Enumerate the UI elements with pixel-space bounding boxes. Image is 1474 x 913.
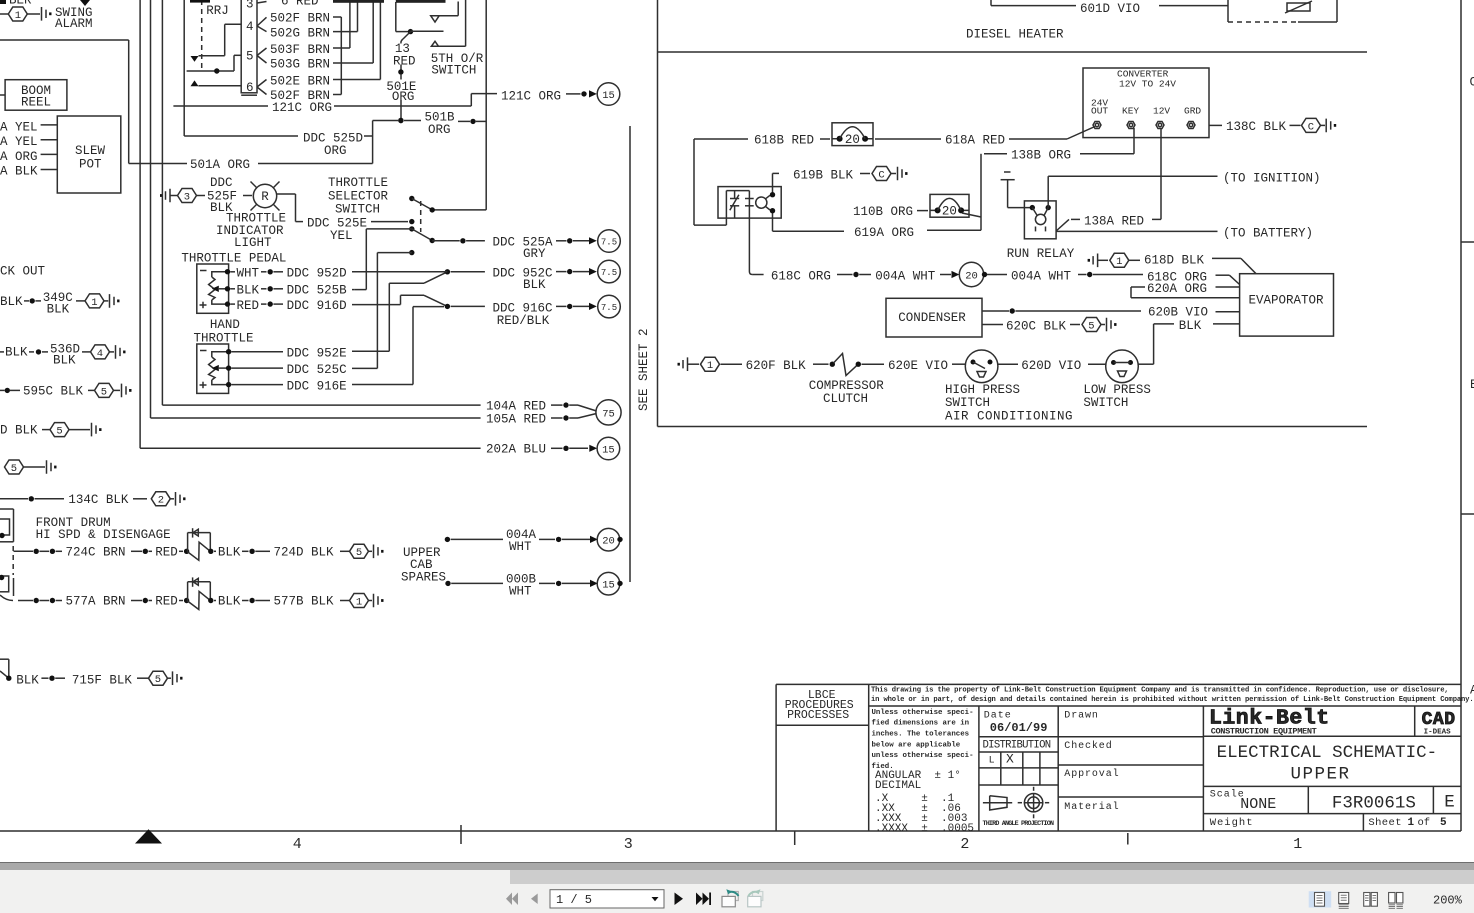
- diode D2 (577A): [187, 577, 211, 609]
- date cell: [979, 706, 1058, 831]
- wire 502F BRN (pin6b): [270, 89, 341, 103]
- svg-text:Material: Material: [1064, 801, 1119, 813]
- svg-text:COMPRESSOR: COMPRESSOR: [809, 379, 885, 393]
- svg-text:619A ORG: 619A ORG: [854, 226, 914, 240]
- svg-text:C: C: [878, 169, 884, 181]
- wire DDC 952E: [231, 347, 389, 361]
- svg-text:503G BRN: 503G BRN: [270, 57, 330, 71]
- wire 595C BLK: [0, 385, 94, 399]
- svg-text:DDC 916D: DDC 916D: [287, 299, 347, 313]
- svg-text:724D BLK: 724D BLK: [274, 545, 335, 559]
- hand throttle potentiometer: [197, 344, 232, 393]
- svg-text:1: 1: [707, 360, 713, 372]
- svg-text:1: 1: [356, 596, 362, 608]
- connector 5 (D BLK): [50, 423, 69, 438]
- svg-text:004A WHT: 004A WHT: [1011, 269, 1072, 283]
- wire 138B ORG: [981, 128, 1134, 230]
- connector 1 (620F): [701, 357, 720, 372]
- svg-text:A YEL: A YEL: [0, 121, 38, 135]
- svg-text:595C BLK: 595C BLK: [23, 385, 84, 399]
- svg-text:This drawing is the property o: This drawing is the property of Link-Bel…: [871, 687, 1449, 695]
- svg-text:618D BLK: 618D BLK: [1144, 253, 1205, 267]
- svg-text:12V TO 24V: 12V TO 24V: [1119, 78, 1176, 89]
- ground (595C): [114, 384, 132, 398]
- boom reel box: [0, 80, 67, 111]
- wire 138A RED: [1056, 128, 1161, 231]
- throttle pedal potentiometer: [197, 264, 230, 313]
- wire 104A RED: [162, 0, 596, 414]
- wire 202A BLU: [140, 0, 597, 457]
- svg-text:C: C: [1308, 121, 1314, 133]
- svg-text:502F BRN: 502F BRN: [270, 12, 330, 26]
- svg-text:(TO IGNITION): (TO IGNITION): [1223, 171, 1321, 185]
- partial mark: [190, 0, 210, 3]
- svg-text:(TO BATTERY): (TO BATTERY): [1223, 227, 1313, 241]
- svg-text:1: 1: [91, 297, 97, 309]
- svg-text:577A BRN: 577A BRN: [66, 595, 126, 609]
- svg-text:3: 3: [184, 191, 190, 203]
- compressor clutch contact: [834, 354, 862, 376]
- svg-text:1: 1: [1408, 817, 1415, 829]
- svg-text:CLUTCH: CLUTCH: [823, 392, 868, 406]
- wire DDC 525F BLK: [197, 176, 253, 215]
- ground (throttle light): [160, 189, 178, 203]
- ground (lower 5): [24, 460, 57, 474]
- wire DDC 525A GRY: [432, 236, 597, 262]
- svg-text:fied dimensions are in: fied dimensions are in: [872, 720, 970, 728]
- facing continuous layout button: [1389, 893, 1395, 904]
- wire 577A BRN: [18, 595, 189, 609]
- svg-text:BLK: BLK: [523, 278, 546, 292]
- svg-text:UPPER: UPPER: [1291, 765, 1351, 785]
- connector 15 (spare): [597, 572, 623, 595]
- wire: [27, 13, 40, 15]
- pin 6 fan: [257, 80, 267, 95]
- pin 5 fan: [257, 48, 267, 63]
- svg-text:DECIMAL: DECIMAL: [875, 780, 921, 792]
- wire 502E BRN (pin6a): [270, 75, 380, 89]
- wire 004A WHT: [875, 269, 959, 283]
- svg-text:KEY: KEY: [1122, 106, 1139, 117]
- svg-text:004A WHT: 004A WHT: [875, 269, 936, 283]
- relay fragment (front drum): [0, 509, 14, 542]
- third angle projection symbol: [983, 787, 1054, 828]
- svg-text:DDC 525B: DDC 525B: [287, 284, 348, 298]
- diesel heater box (cut): [1228, 0, 1337, 22]
- svg-text:SPARES: SPARES: [401, 570, 446, 584]
- wire 618C ORG (flasher out): [749, 269, 871, 283]
- svg-text:ORG: ORG: [324, 144, 347, 158]
- svg-text:5: 5: [1088, 320, 1094, 332]
- run relay: [1024, 201, 1056, 239]
- label RRJ: [206, 4, 229, 18]
- connector 20 (004A): [959, 262, 987, 286]
- slew pot input labels: [0, 121, 57, 179]
- wire 121C ORG: [173, 89, 596, 115]
- wire 619B BLK: [773, 168, 871, 194]
- wire 577B BLK: [208, 595, 349, 609]
- svg-text:619B BLK: 619B BLK: [793, 168, 854, 182]
- weight row: [1203, 814, 1461, 831]
- svg-text:6 RED: 6 RED: [281, 0, 319, 8]
- ground (724D): [369, 545, 384, 559]
- last page button: [696, 893, 709, 906]
- svg-text:577B BLK: 577B BLK: [274, 595, 335, 609]
- svg-text:2: 2: [960, 836, 969, 853]
- label LOW PRESS SWITCH: [1083, 383, 1151, 410]
- ground (620C): [1101, 318, 1117, 332]
- wire to 13 RED switch: [396, 31, 411, 33]
- svg-text:618A RED: 618A RED: [945, 134, 1005, 148]
- wire 501A feed from left: [0, 40, 129, 164]
- wire 715F BLK: [0, 659, 148, 687]
- zone ticks: [461, 825, 1128, 845]
- ground (D BLK): [69, 423, 102, 437]
- wire 004A WHT (spare): [445, 528, 598, 554]
- wire 105A RED: [151, 0, 597, 427]
- wire 502G BRN (pin4b): [270, 26, 358, 40]
- svg-text:724C BRN: 724C BRN: [66, 545, 126, 559]
- label HIGH PRESS SWITCH: [945, 383, 1020, 410]
- wire 724D BLK: [208, 545, 349, 559]
- svg-text:121C ORG: 121C ORG: [501, 89, 561, 103]
- wire 620B VIO: [982, 306, 1240, 320]
- wire DDC 525B to selector: [354, 229, 412, 290]
- connector 5 (724D): [350, 544, 369, 559]
- sheet-2 boundary line: [629, 126, 631, 582]
- svg-text:BLK: BLK: [1179, 319, 1202, 333]
- svg-text:ELECTRICAL SCHEMATIC-: ELECTRICAL SCHEMATIC-: [1217, 743, 1438, 763]
- svg-text:SWITCH: SWITCH: [1083, 396, 1128, 410]
- svg-text:THROTTLE PEDAL: THROTTLE PEDAL: [181, 251, 286, 265]
- diode D1 (724C): [187, 528, 211, 560]
- svg-text:6: 6: [246, 81, 254, 95]
- svg-text:620D VIO: 620D VIO: [1021, 359, 1081, 373]
- svg-text:15: 15: [602, 444, 615, 456]
- svg-text:CONDENSER: CONDENSER: [898, 311, 966, 325]
- svg-text:105A RED: 105A RED: [486, 413, 546, 427]
- svg-text:BLK: BLK: [47, 302, 70, 316]
- svg-text:WHT: WHT: [509, 540, 532, 554]
- selector switch contacts: [409, 196, 435, 256]
- wire 620E VIO: [862, 359, 966, 373]
- ground (swing alarm): [42, 7, 52, 21]
- revision triangle: [135, 829, 162, 843]
- wire DDC 525E YEL: [277, 194, 408, 243]
- wire 536D BLK: [0, 342, 90, 367]
- label 5TH O/R SWITCH: [431, 52, 484, 77]
- wire 000B WHT (spare): [445, 572, 598, 598]
- svg-text:104A RED: 104A RED: [486, 400, 546, 414]
- connector 7.5 (952C): [598, 260, 621, 283]
- condenser box: [886, 298, 982, 337]
- disclaimer text: [869, 687, 1474, 706]
- ground (run relay): [1001, 172, 1033, 208]
- svg-text:1 / 5: 1 / 5: [556, 893, 592, 907]
- title block frame and LBCE cell: [776, 684, 1461, 831]
- svg-text:4: 4: [97, 348, 103, 360]
- ground (349C): [104, 294, 120, 308]
- svg-text:RUN RELAY: RUN RELAY: [1007, 247, 1075, 261]
- svg-text:5: 5: [246, 50, 254, 64]
- svg-text:200%: 200%: [1433, 894, 1463, 908]
- svg-text:NONE: NONE: [1240, 796, 1276, 813]
- CAD I-DEAS logo: [1422, 710, 1456, 737]
- pin 4 wire to RRJ triangle: [191, 24, 242, 62]
- ground (715F): [168, 671, 183, 685]
- svg-text:R: R: [261, 190, 269, 204]
- label RUN RELAY: [1007, 247, 1075, 261]
- svg-text:HI SPD & DISENGAGE: HI SPD & DISENGAGE: [36, 528, 171, 542]
- connector 75: [596, 400, 621, 425]
- converter terminal 12V: [1156, 122, 1164, 129]
- label THROTTLE INDICATOR LIGHT: [216, 212, 286, 250]
- svg-text:1: 1: [1116, 256, 1122, 268]
- wire BLK (evap): [1154, 319, 1240, 364]
- wire low press to BLK: [1138, 363, 1153, 365]
- svg-text:3: 3: [624, 836, 633, 853]
- svg-text:503F BRN: 503F BRN: [270, 43, 330, 57]
- svg-text:C: C: [1470, 75, 1474, 89]
- connector C (138C): [1302, 118, 1321, 133]
- svg-text:SELECTOR: SELECTOR: [328, 189, 389, 203]
- label UPPER CAB SPARES: [401, 546, 446, 584]
- connector 5 (lower): [5, 460, 24, 475]
- connector C (619B): [872, 167, 891, 182]
- bundle verticals: [341, 2, 396, 95]
- svg-text:THROTTLE: THROTTLE: [194, 331, 254, 345]
- svg-text:WHT: WHT: [237, 267, 260, 281]
- slew pot box: [57, 116, 121, 193]
- svg-text:BLK: BLK: [218, 545, 241, 559]
- flasher relay: [718, 187, 781, 272]
- svg-text:601D VIO: 601D VIO: [1080, 2, 1140, 16]
- svg-text:5: 5: [356, 547, 362, 559]
- wire 620C BLK: [982, 319, 1080, 333]
- wire 618C ORG (to evap): [1147, 270, 1240, 284]
- svg-text:620C BLK: 620C BLK: [1006, 319, 1067, 333]
- svg-text:GRY: GRY: [523, 247, 546, 261]
- svg-text:A BLK: A BLK: [0, 165, 38, 179]
- svg-text:CAD: CAD: [1422, 710, 1456, 730]
- wire DDC 525C to selector: [377, 253, 411, 369]
- svg-text:SEE SHEET 2: SEE SHEET 2: [637, 328, 651, 411]
- svg-text:501A ORG: 501A ORG: [190, 158, 250, 172]
- svg-text:138A RED: 138A RED: [1084, 214, 1144, 228]
- previous page button: [531, 894, 538, 905]
- pin 6 wire to RRJ triangle: [191, 80, 242, 86]
- svg-text:DDC: DDC: [210, 176, 233, 190]
- zone numbers: [293, 836, 1303, 853]
- svg-text:RED: RED: [155, 595, 178, 609]
- svg-text:RED: RED: [393, 55, 416, 69]
- svg-text:134C BLK: 134C BLK: [68, 493, 129, 507]
- svg-text:Approval: Approval: [1064, 768, 1119, 780]
- svg-text:ORG: ORG: [428, 123, 451, 137]
- wire 501B ORG: [373, 110, 487, 137]
- viewer scrollbar strip: [0, 862, 1474, 863]
- svg-text:3: 3: [246, 0, 254, 11]
- svg-text:X: X: [1006, 752, 1014, 767]
- connector 15 (121C): [597, 83, 620, 106]
- svg-text:DDC 525C: DDC 525C: [287, 363, 347, 377]
- wire 618B RED: [694, 134, 830, 225]
- svg-text:BLK: BLK: [237, 284, 260, 298]
- svg-text:Weight: Weight: [1210, 817, 1254, 829]
- svg-text:620E VIO: 620E VIO: [888, 359, 948, 373]
- wire DDC 525D ORG: [184, 0, 372, 158]
- svg-text:618B RED: 618B RED: [754, 134, 814, 148]
- svg-text:620F BLK: 620F BLK: [746, 359, 807, 373]
- connector RRJ body: [241, 0, 257, 95]
- svg-text:5: 5: [1440, 817, 1447, 829]
- svg-text:THROTTLE: THROTTLE: [328, 176, 388, 190]
- 5th O/R switch triangle upper: [431, 2, 459, 23]
- svg-text:below are applicable: below are applicable: [872, 741, 961, 749]
- svg-text:1: 1: [1293, 836, 1302, 853]
- connector 15 (202A): [597, 437, 620, 460]
- label HAND THROTTLE: [194, 318, 254, 345]
- top bus wire: [333, 0, 446, 3]
- svg-text:75: 75: [602, 408, 615, 420]
- Link-Belt logo: [1209, 707, 1330, 737]
- continuous layout button: [1339, 893, 1349, 904]
- wire DDC 525B: [230, 284, 354, 298]
- svg-text:202A BLU: 202A BLU: [486, 443, 546, 457]
- wire DDC 525C: [231, 363, 377, 377]
- svg-text:4: 4: [246, 20, 254, 34]
- svg-text:in whole or in part, of design: in whole or in part, of design and detai…: [871, 696, 1474, 704]
- wire 138C BLK: [1209, 120, 1301, 134]
- section border: [658, 0, 1368, 427]
- svg-text:CK OUT: CK OUT: [0, 264, 46, 278]
- label COMPRESSOR CLUTCH: [809, 379, 885, 406]
- svg-text:138B ORG: 138B ORG: [1011, 149, 1071, 163]
- scale row: [1203, 786, 1461, 813]
- svg-text:WHT: WHT: [509, 584, 532, 598]
- svg-text:Unless otherwise speci-: Unless otherwise speci-: [872, 709, 974, 717]
- connector 7.5 (525A): [598, 230, 621, 253]
- svg-text:5: 5: [101, 386, 107, 398]
- wire DDC 916E: [231, 380, 413, 394]
- wire 618D BLK: [1129, 253, 1256, 273]
- wire 724C BRN: [14, 545, 190, 559]
- low press switch: [1106, 350, 1139, 383]
- svg-text:OUT: OUT: [1091, 106, 1108, 117]
- connector 1 (349C): [85, 294, 104, 309]
- evaporator box: [1240, 274, 1334, 336]
- svg-text:BLK: BLK: [53, 354, 76, 368]
- label 13 RED: [393, 42, 416, 69]
- svg-text:Checked: Checked: [1064, 740, 1112, 752]
- wire 501E ORG: [386, 65, 416, 124]
- label THROTTLE PEDAL: [181, 251, 286, 265]
- wire 503G BRN (pin5b): [270, 57, 373, 71]
- wire D BLK: [0, 424, 50, 438]
- svg-text:1: 1: [15, 10, 21, 22]
- svg-text:SWITCH: SWITCH: [431, 63, 476, 77]
- svg-text:A YEL: A YEL: [0, 135, 38, 149]
- converter terminal GRD: [1187, 122, 1195, 129]
- connector 5 (620C): [1082, 318, 1101, 333]
- svg-text:5: 5: [155, 674, 161, 686]
- wire 134C BLK: [0, 493, 147, 507]
- svg-text:121C ORG: 121C ORG: [272, 101, 332, 115]
- svg-text:DDC 952E: DDC 952E: [287, 347, 347, 361]
- fuse output diagonal: [962, 213, 981, 217]
- pin 3 fan: [257, 2, 267, 4]
- svg-text:5: 5: [11, 463, 17, 475]
- svg-text:12V: 12V: [1153, 106, 1170, 117]
- facing pages layout button: [1364, 893, 1370, 907]
- wire 601D VIO: [991, 0, 1228, 16]
- relay fragment 2: [0, 575, 14, 601]
- svg-text:RRJ: RRJ: [206, 4, 229, 18]
- converter box: [1083, 68, 1209, 138]
- wire 620D VIO: [998, 359, 1106, 373]
- svg-text:F3R0061S: F3R0061S: [1332, 794, 1416, 814]
- svg-text:ALARM: ALARM: [55, 17, 93, 31]
- ground (577B): [369, 594, 384, 608]
- drawing title: [1217, 743, 1438, 785]
- svg-text:BLK: BLK: [218, 595, 241, 609]
- connector 7.5 (916C): [598, 295, 621, 318]
- ground (618D): [1088, 254, 1108, 268]
- svg-text:CONSTRUCTION EQUIPMENT: CONSTRUCTION EQUIPMENT: [1211, 726, 1317, 736]
- svg-text:4: 4: [293, 836, 302, 853]
- svg-text:.XXXX ± .0005: .XXXX ± .0005: [875, 823, 974, 835]
- wire DDC 952C BLK: [389, 267, 597, 352]
- ground (134C): [170, 492, 185, 506]
- wire DDC 916D: [230, 299, 400, 313]
- wire 349C BLK: [0, 291, 85, 316]
- fuse 20A (618B): [832, 123, 873, 147]
- connector 5 (595C): [95, 383, 114, 398]
- sheet right border: [1461, 0, 1474, 831]
- svg-text:BLK: BLK: [0, 295, 23, 309]
- label SEE SHEET 2: [637, 328, 651, 411]
- sheet bottom border: [0, 830, 1461, 832]
- svg-text:2: 2: [158, 495, 164, 507]
- switch blade wire: [411, 30, 444, 32]
- ground (138C): [1321, 119, 1337, 133]
- svg-text:15: 15: [602, 580, 615, 592]
- svg-text:20: 20: [942, 205, 957, 219]
- label SWING ALARM: [55, 6, 93, 31]
- svg-text:Date: Date: [984, 710, 1012, 721]
- wire 620F BLK: [721, 359, 836, 373]
- status toolbar: [0, 885, 1474, 913]
- svg-text:of: of: [1418, 817, 1431, 829]
- svg-text:REEL: REEL: [21, 95, 51, 109]
- connector 20 (spare): [597, 528, 623, 551]
- svg-text:DIESEL HEATER: DIESEL HEATER: [966, 27, 1064, 41]
- next page button: [675, 893, 684, 906]
- svg-text:THIRD ANGLE PROJECTION: THIRD ANGLE PROJECTION: [983, 820, 1054, 828]
- svg-text:LIGHT: LIGHT: [234, 236, 272, 250]
- wire to battery: [1056, 227, 1313, 241]
- svg-text:BLK: BLK: [5, 346, 28, 360]
- svg-text:110B ORG: 110B ORG: [853, 205, 913, 219]
- svg-text:620B VIO: 620B VIO: [1148, 306, 1208, 320]
- dashed link: [12, 546, 14, 575]
- wire DDC 952D: [230, 267, 447, 281]
- svg-text:YEL: YEL: [330, 229, 353, 243]
- tolerance cell: [872, 706, 979, 835]
- wire DDC 916C RED/BLK: [401, 295, 597, 384]
- label THROTTLE SELECTOR SWITCH: [328, 176, 389, 216]
- svg-text:5: 5: [56, 426, 62, 438]
